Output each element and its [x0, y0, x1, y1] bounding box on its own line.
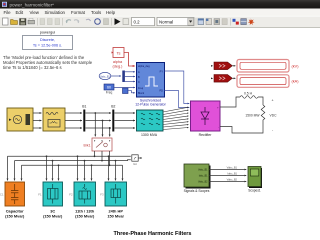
svg-text:60: 60: [107, 86, 111, 90]
svg-text:Freq: Freq: [106, 91, 113, 95]
svg-text:power_harmonicfilter*: power_harmonicfilter*: [10, 2, 55, 7]
svg-text:Edit: Edit: [16, 10, 24, 15]
svg-text:150 Mvar: 150 Mvar: [107, 214, 124, 219]
svg-text:Help: Help: [106, 10, 116, 15]
svg-text:Freq: Freq: [138, 87, 144, 90]
svg-text:File: File: [4, 10, 12, 15]
svg-text:(150 Mvar): (150 Mvar): [5, 214, 25, 219]
svg-text:Vabc_B2: Vabc_B2: [198, 181, 208, 184]
svg-text:(kV): (kV): [292, 65, 300, 69]
svg-text:Block: Block: [138, 92, 145, 95]
svg-text:0.5 H: 0.5 H: [244, 92, 253, 96]
svg-text:Three-Phase Harmonic Filters: Three-Phase Harmonic Filters: [114, 231, 192, 237]
svg-text:alpha: alpha: [113, 60, 123, 64]
svg-text:alpha_deg: alpha_deg: [138, 65, 150, 68]
svg-text:12-Pulse Generator: 12-Pulse Generator: [135, 103, 166, 107]
svg-text:Simulation: Simulation: [45, 10, 66, 15]
svg-text:F1: F1: [38, 193, 42, 197]
svg-text:Vabc_B1: Vabc_B1: [100, 75, 110, 78]
svg-text:powergui: powergui: [40, 31, 56, 35]
svg-text:B2: B2: [111, 105, 115, 109]
svg-text:Iabc_B1: Iabc_B1: [227, 171, 237, 175]
svg-text:(kA): (kA): [292, 80, 300, 84]
svg-text:1500 MW: 1500 MW: [245, 114, 260, 118]
svg-text:Scopes1: Scopes1: [248, 189, 261, 193]
svg-text:C: C: [138, 81, 140, 84]
svg-text:Discrete,: Discrete,: [40, 38, 55, 42]
svg-text:(deg.): (deg.): [113, 65, 124, 69]
svg-text:0.2: 0.2: [134, 20, 141, 25]
svg-text:(150 Mvar): (150 Mvar): [43, 214, 63, 219]
svg-text:time Ts to 1/51840 (= 32.5e-6: time Ts to 1/51840 (= 32.5e-6 s: [3, 65, 62, 70]
svg-text:Iabc_B1: Iabc_B1: [199, 175, 208, 178]
svg-text:Tools: Tools: [91, 10, 102, 15]
svg-text:PD: PD: [160, 90, 164, 93]
svg-text:Vabc_B1: Vabc_B1: [198, 169, 208, 172]
svg-text:(150 Mvar): (150 Mvar): [75, 214, 95, 219]
svg-text:C1: C1: [0, 193, 4, 197]
svg-text:Signals & Scopes: Signals & Scopes: [184, 189, 210, 193]
svg-text:+: +: [272, 99, 274, 103]
svg-text:Brk1: Brk1: [84, 144, 91, 148]
svg-text:Ts: Ts: [117, 51, 121, 56]
svg-text:Rectifier: Rectifier: [199, 133, 213, 137]
svg-text:VDC: VDC: [270, 114, 278, 118]
svg-text:F2: F2: [69, 193, 73, 197]
svg-text:1300 MVA: 1300 MVA: [141, 133, 158, 137]
svg-text:Vabc_B1: Vabc_B1: [227, 165, 238, 169]
svg-text:-: -: [218, 126, 219, 129]
svg-text:Vabc_B2: Vabc_B2: [227, 177, 238, 181]
svg-text:Imt: Imt: [133, 162, 137, 166]
svg-text:View: View: [30, 10, 40, 15]
svg-text:B1: B1: [82, 105, 86, 109]
svg-text:F3: F3: [100, 193, 104, 197]
svg-text:Normal: Normal: [159, 20, 173, 25]
svg-text:Ts = 12.5e-006 s.: Ts = 12.5e-006 s.: [33, 44, 62, 48]
svg-text:Format: Format: [71, 10, 86, 15]
svg-text:PY: PY: [160, 71, 164, 74]
